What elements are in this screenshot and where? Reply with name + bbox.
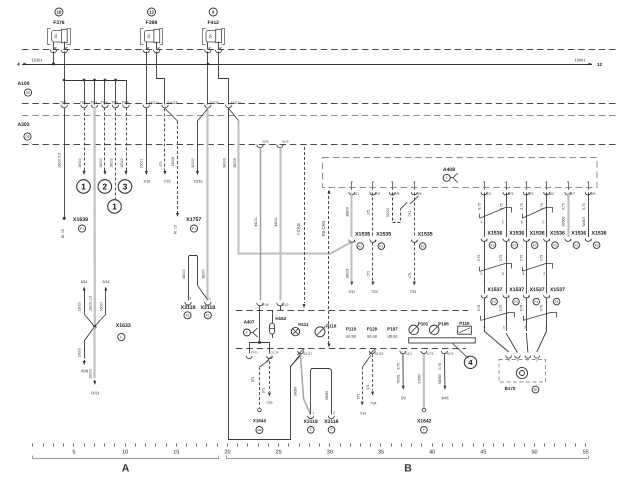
svg-text:F: F bbox=[423, 428, 425, 432]
svg-text:T42/11: T42/11 bbox=[231, 101, 241, 105]
svg-text:X1536: X1536 bbox=[487, 231, 502, 237]
svg-text:ws: ws bbox=[542, 271, 546, 275]
svg-text:F4: F4 bbox=[492, 300, 496, 304]
svg-text:38000: 38000 bbox=[182, 269, 186, 279]
svg-text:P118: P118 bbox=[326, 323, 337, 328]
svg-text:P106: P106 bbox=[438, 321, 449, 326]
svg-text:A/1: A/1 bbox=[354, 192, 359, 196]
svg-text:38009: 38009 bbox=[222, 158, 226, 168]
svg-text:K2: K2 bbox=[491, 243, 495, 247]
svg-text:K2: K2 bbox=[533, 243, 537, 247]
svg-text:61/18: 61/18 bbox=[375, 352, 383, 356]
svg-text:0.75: 0.75 bbox=[520, 203, 524, 210]
svg-text:071: 071 bbox=[357, 394, 361, 400]
svg-text:16000 2.5: 16000 2.5 bbox=[58, 153, 62, 168]
svg-text:30: 30 bbox=[327, 449, 333, 455]
svg-text:X1639: X1639 bbox=[73, 217, 88, 223]
svg-text:071: 071 bbox=[261, 388, 265, 394]
svg-text:F: F bbox=[331, 428, 333, 432]
svg-text:38000: 38000 bbox=[294, 387, 298, 396]
svg-text:T8/4: T8/4 bbox=[101, 101, 108, 105]
svg-text:1: 1 bbox=[112, 202, 117, 212]
svg-text:41/9: 41/9 bbox=[282, 140, 289, 144]
svg-text:071: 071 bbox=[367, 209, 371, 215]
svg-text:P107: P107 bbox=[387, 326, 398, 331]
svg-text:45: 45 bbox=[480, 449, 486, 455]
svg-text:38009: 38009 bbox=[233, 158, 237, 168]
svg-text:Kl. 15: Kl. 15 bbox=[174, 225, 178, 234]
svg-text:0.75: 0.75 bbox=[540, 305, 544, 312]
svg-text:44101: 44101 bbox=[254, 217, 258, 227]
svg-text:T8/6: T8/6 bbox=[122, 101, 129, 105]
svg-text:38000: 38000 bbox=[202, 269, 206, 279]
svg-text:T8/3: T8/3 bbox=[90, 101, 97, 105]
svg-text:ws: ws bbox=[544, 325, 548, 329]
svg-text:X1642: X1642 bbox=[417, 418, 432, 424]
svg-text:15: 15 bbox=[173, 449, 179, 455]
svg-text:B2: B2 bbox=[534, 388, 538, 392]
svg-text:D: D bbox=[536, 358, 538, 362]
svg-text:A: A bbox=[122, 462, 130, 474]
svg-text:0.75: 0.75 bbox=[477, 255, 481, 262]
svg-text:35: 35 bbox=[378, 449, 384, 455]
svg-text:F4: F4 bbox=[534, 300, 538, 304]
svg-text:X1535: X1535 bbox=[355, 232, 370, 238]
svg-text:N8000: N8000 bbox=[438, 374, 442, 384]
svg-text:D1/16: D1/16 bbox=[271, 350, 279, 354]
svg-text:F: F bbox=[246, 331, 248, 335]
svg-text:38009: 38009 bbox=[346, 269, 350, 279]
svg-text:M4: M4 bbox=[257, 428, 262, 432]
svg-text:0.75: 0.75 bbox=[499, 255, 503, 262]
svg-text:12: 12 bbox=[149, 10, 154, 15]
svg-text:30000: 30000 bbox=[191, 158, 195, 168]
svg-text:0.75: 0.75 bbox=[478, 203, 482, 210]
svg-text:P120: P120 bbox=[367, 326, 378, 331]
svg-text:B/3: B/3 bbox=[508, 192, 513, 196]
svg-text:X1536: X1536 bbox=[530, 231, 545, 237]
svg-text:P119: P119 bbox=[346, 326, 357, 331]
svg-text:gr: gr bbox=[479, 272, 483, 275]
svg-text:7/28: 7/28 bbox=[266, 401, 273, 405]
svg-text:61/1: 61/1 bbox=[406, 352, 413, 356]
svg-text:15001: 15001 bbox=[574, 57, 586, 62]
svg-text:0.75: 0.75 bbox=[582, 203, 586, 210]
svg-text:0.75: 0.75 bbox=[477, 305, 481, 312]
svg-text:15001: 15001 bbox=[140, 159, 144, 169]
svg-text:P116: P116 bbox=[459, 321, 470, 326]
svg-text:3: 3 bbox=[123, 182, 128, 192]
svg-text:F4: F4 bbox=[555, 300, 559, 304]
svg-text:16000: 16000 bbox=[109, 158, 113, 168]
svg-text:T42/8: T42/8 bbox=[210, 101, 219, 105]
svg-text:K2: K2 bbox=[358, 244, 362, 248]
svg-text:7/14: 7/14 bbox=[360, 411, 367, 415]
svg-text:X1536: X1536 bbox=[571, 231, 586, 237]
svg-text:16000: 16000 bbox=[99, 302, 103, 312]
svg-text:A408: A408 bbox=[443, 167, 455, 173]
svg-text:I-CAN: I-CAN bbox=[296, 223, 301, 234]
svg-text:16006: 16006 bbox=[171, 157, 175, 167]
svg-text:X1537: X1537 bbox=[550, 287, 565, 293]
svg-text:31000: 31000 bbox=[386, 208, 390, 218]
svg-text:44001: 44001 bbox=[274, 217, 278, 227]
svg-text:H111: H111 bbox=[298, 322, 309, 327]
svg-text:5/14: 5/14 bbox=[102, 280, 109, 284]
svg-text:16000: 16000 bbox=[78, 158, 82, 168]
svg-text:X1633: X1633 bbox=[116, 323, 131, 329]
svg-text:D1/6: D1/6 bbox=[262, 303, 269, 307]
svg-text:F1: F1 bbox=[186, 313, 190, 317]
svg-text:K2: K2 bbox=[513, 243, 517, 247]
svg-text:ge: ge bbox=[521, 272, 525, 276]
svg-text:13/16: 13/16 bbox=[193, 179, 202, 183]
svg-text:0.75: 0.75 bbox=[397, 363, 401, 370]
svg-text:16000: 16000 bbox=[89, 369, 93, 379]
svg-text:16000: 16000 bbox=[78, 302, 82, 312]
svg-text:F4: F4 bbox=[514, 300, 518, 304]
svg-text:40: 40 bbox=[429, 449, 435, 455]
svg-text:5: 5 bbox=[72, 449, 75, 455]
svg-text:F412: F412 bbox=[207, 20, 219, 26]
svg-text:A/5: A/5 bbox=[394, 192, 399, 196]
svg-text:D6: D6 bbox=[25, 135, 29, 139]
svg-text:11/21: 11/21 bbox=[91, 391, 100, 395]
svg-text:X1/15: X1/15 bbox=[251, 350, 259, 354]
svg-text:D1/17: D1/17 bbox=[304, 352, 313, 356]
svg-text:gn: gn bbox=[500, 272, 504, 276]
svg-text:P101: P101 bbox=[418, 321, 429, 326]
svg-text:071: 071 bbox=[408, 272, 412, 278]
svg-text:0.75: 0.75 bbox=[540, 255, 544, 262]
svg-text:F1: F1 bbox=[192, 227, 196, 231]
svg-text:31000: 31000 bbox=[417, 374, 421, 383]
svg-text:gn: gn bbox=[541, 220, 545, 224]
svg-text:F1: F1 bbox=[206, 313, 210, 317]
svg-text:K2: K2 bbox=[379, 244, 383, 248]
svg-text:12: 12 bbox=[597, 62, 603, 67]
svg-text:88,88: 88,88 bbox=[346, 334, 357, 339]
svg-text:X3118: X3118 bbox=[200, 305, 215, 311]
svg-text:Kl. 15: Kl. 15 bbox=[61, 229, 65, 238]
svg-text:6/28: 6/28 bbox=[81, 369, 88, 373]
svg-text:76301: 76301 bbox=[397, 374, 401, 383]
svg-text:F: F bbox=[310, 428, 312, 432]
svg-text:T8/2: T8/2 bbox=[80, 101, 87, 105]
svg-text:16000: 16000 bbox=[78, 348, 82, 358]
svg-text:88,88: 88,88 bbox=[367, 334, 378, 339]
svg-text:A/2: A/2 bbox=[375, 192, 380, 196]
svg-text:8/45: 8/45 bbox=[442, 396, 449, 400]
svg-text:T41/18: T41/18 bbox=[167, 101, 178, 105]
svg-text:X1536: X1536 bbox=[550, 231, 565, 237]
svg-text:7/24: 7/24 bbox=[371, 290, 378, 294]
svg-text:F376: F376 bbox=[53, 20, 65, 26]
svg-text:H162: H162 bbox=[275, 316, 286, 321]
svg-text:20: 20 bbox=[224, 449, 230, 455]
svg-text:D1/2: D1/2 bbox=[282, 303, 289, 307]
svg-text:25: 25 bbox=[276, 449, 282, 455]
svg-text:ge: ge bbox=[523, 325, 527, 329]
svg-text:16000 1.5: 16000 1.5 bbox=[88, 296, 92, 311]
svg-text:5/3: 5/3 bbox=[401, 396, 406, 400]
svg-text:A407: A407 bbox=[244, 319, 255, 324]
svg-text:16000: 16000 bbox=[99, 158, 103, 168]
svg-text:K2: K2 bbox=[421, 244, 425, 248]
svg-text:0.75: 0.75 bbox=[499, 305, 503, 312]
svg-text:B/4: B/4 bbox=[549, 192, 554, 196]
svg-text:071: 071 bbox=[251, 377, 255, 383]
svg-text:B/2: B/2 bbox=[529, 192, 534, 196]
svg-text:071: 071 bbox=[159, 161, 163, 167]
svg-text:T8/5: T8/5 bbox=[111, 101, 118, 105]
svg-text:B/1: B/1 bbox=[486, 192, 491, 196]
svg-text:N8500: N8500 bbox=[562, 216, 566, 226]
svg-text:D6: D6 bbox=[26, 91, 30, 95]
svg-text:T42/13: T42/13 bbox=[148, 101, 159, 105]
svg-text:F1: F1 bbox=[80, 227, 84, 231]
svg-text:2: 2 bbox=[102, 182, 107, 192]
svg-text:X1536: X1536 bbox=[509, 231, 524, 237]
svg-text:071: 071 bbox=[408, 211, 412, 217]
svg-text:50: 50 bbox=[531, 449, 537, 455]
svg-text:10: 10 bbox=[122, 449, 128, 455]
svg-text:FS-CAN: FS-CAN bbox=[321, 221, 326, 236]
svg-text:X3118: X3118 bbox=[181, 305, 196, 311]
svg-text:X1535: X1535 bbox=[418, 232, 433, 238]
svg-text:F: F bbox=[120, 335, 122, 339]
svg-text:38809: 38809 bbox=[346, 207, 350, 217]
svg-text:6/11: 6/11 bbox=[81, 280, 88, 284]
svg-text:B/8: B/8 bbox=[590, 192, 595, 196]
svg-text:X1757: X1757 bbox=[186, 217, 201, 223]
svg-text:071: 071 bbox=[367, 271, 371, 277]
svg-text:X1536: X1536 bbox=[591, 231, 606, 237]
svg-text:gr: gr bbox=[482, 326, 486, 329]
svg-text:L: L bbox=[446, 176, 448, 180]
svg-text:A/6: A/6 bbox=[417, 192, 422, 196]
svg-text:X7/3: X7/3 bbox=[426, 352, 433, 356]
svg-text:X1537: X1537 bbox=[530, 287, 545, 293]
svg-text:N8507: N8507 bbox=[582, 216, 586, 226]
svg-text:42/9: 42/9 bbox=[262, 140, 269, 144]
svg-text:7/24: 7/24 bbox=[410, 290, 417, 294]
svg-text:K2: K2 bbox=[575, 243, 579, 247]
svg-text:X1644: X1644 bbox=[253, 418, 267, 423]
svg-text:B/7: B/7 bbox=[570, 192, 575, 196]
svg-text:1/16: 1/16 bbox=[143, 179, 150, 183]
svg-text:K2: K2 bbox=[595, 243, 599, 247]
svg-text:B170: B170 bbox=[505, 386, 516, 391]
svg-text:F398: F398 bbox=[146, 20, 158, 26]
svg-text:10: 10 bbox=[56, 10, 61, 15]
svg-text:X3119: X3119 bbox=[304, 419, 318, 425]
svg-text:7/24: 7/24 bbox=[370, 401, 377, 405]
svg-text:0.75: 0.75 bbox=[519, 255, 523, 262]
svg-text:16000: 16000 bbox=[120, 158, 124, 168]
svg-text:X3119: X3119 bbox=[324, 419, 338, 425]
svg-text:55: 55 bbox=[583, 449, 589, 455]
svg-text:61/9: 61/9 bbox=[447, 352, 454, 356]
svg-text:ge: ge bbox=[520, 220, 524, 224]
svg-text:gn: gn bbox=[502, 325, 506, 329]
svg-text:5/11: 5/11 bbox=[349, 290, 355, 294]
svg-text:1: 1 bbox=[81, 182, 86, 192]
svg-text:15301: 15301 bbox=[31, 57, 43, 62]
svg-text:0.75: 0.75 bbox=[438, 363, 442, 370]
svg-text:7/23: 7/23 bbox=[163, 179, 170, 183]
svg-text:X1537: X1537 bbox=[487, 287, 502, 293]
svg-text:X1537: X1537 bbox=[509, 287, 524, 293]
svg-text:X1535: X1535 bbox=[376, 232, 391, 238]
svg-text:T8/1: T8/1 bbox=[60, 101, 67, 105]
svg-text:071: 071 bbox=[366, 384, 370, 390]
svg-text:B: B bbox=[404, 462, 412, 474]
svg-text:38000: 38000 bbox=[325, 391, 329, 400]
svg-text:A302: A302 bbox=[18, 122, 30, 128]
svg-text:0.75: 0.75 bbox=[562, 203, 566, 210]
svg-text:88,88: 88,88 bbox=[387, 334, 398, 339]
svg-text:A100: A100 bbox=[18, 81, 30, 87]
svg-text:ws: ws bbox=[501, 220, 505, 224]
svg-text:gr: gr bbox=[479, 221, 483, 224]
svg-text:K2: K2 bbox=[553, 243, 557, 247]
svg-text:0.75: 0.75 bbox=[519, 305, 523, 312]
